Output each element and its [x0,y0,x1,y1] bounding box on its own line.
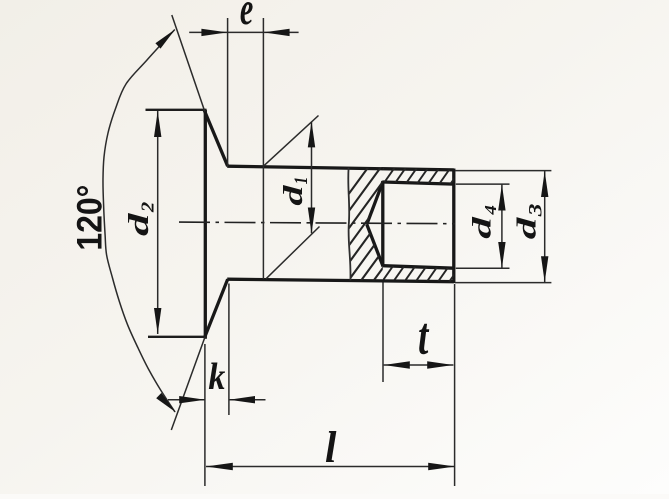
dimension k arrow left [179,396,205,403]
dimension e line [189,31,298,33]
dimension d2 extension line top [146,109,207,111]
section break line [348,168,350,281]
dimension d4 extension line top [456,183,510,185]
dimension l arrow right [428,463,455,470]
dimension d2 arrow bottom [154,308,161,334]
dimension d4 arrow bottom [498,242,505,268]
dimension k line right tail [229,399,266,401]
dimension d1 arrow bottom [308,208,315,234]
axis centerline [179,222,455,224]
dimension e arrow left [201,29,227,36]
shank end face [452,169,455,284]
dimension d2 arrow top [154,111,161,137]
dimension d3 line [544,171,546,282]
dimension d1 line [311,122,313,234]
bore bottom wall [381,181,384,267]
dimension d3 arrow bottom [541,256,548,282]
shank top edge [227,166,454,170]
svg-text:e: e [240,0,253,35]
dimension d4 arrow top [498,185,505,211]
label d1 [278,185,308,206]
rivet head cone top edge [204,110,227,166]
svg-text:k: k [208,356,225,398]
dimension t extension line left [382,283,384,383]
label d2 [124,212,155,236]
svg-text:120°: 120° [71,185,110,251]
dimension k line left tail [168,399,205,401]
dimension d1 oblique extension lower [266,227,320,279]
svg-text:d: d [124,212,155,236]
shank bottom edge [227,279,454,282]
svg-text:d: d [511,217,541,240]
section hatching strips [288,158,547,288]
dimension t line [384,364,454,366]
dimension d2 extension line bottom [148,336,207,338]
svg-text:4: 4 [481,205,500,216]
120deg arc arrow bottom [156,393,176,413]
dimension d3 extension line top [455,170,551,172]
dimension k extension line right [228,284,230,416]
rivet head flat face [204,110,207,339]
svg-text:d: d [278,185,308,206]
120deg arc arrow top [155,29,175,48]
svg-text:d: d [467,216,497,239]
svg-text:l: l [325,423,337,472]
dimension l line [206,466,455,468]
120deg arc [103,30,175,413]
bore cone upper edge [367,182,383,224]
dimension d1 arrow top [308,121,315,147]
rivet head cone bottom edge [204,279,227,338]
dimension l arrow left [206,463,233,470]
svg-text:2: 2 [139,202,159,214]
svg-text:t: t [418,306,429,365]
label d3 [511,217,541,240]
dimension e extension line right [262,18,264,279]
dimension d4 line [501,184,503,268]
label e [240,0,253,35]
bore cone lower edge [367,224,383,265]
cone edge extension lower [171,338,205,431]
bore bottom edge [383,266,454,269]
label k [208,356,225,398]
svg-text:1: 1 [289,177,311,185]
dimension d4 extension line bottom [456,267,510,269]
label l [325,423,337,472]
bore top edge [383,182,454,184]
dimension t arrow right [427,361,453,368]
dimension d1 oblique extension upper [264,116,319,166]
label t [418,306,429,365]
label d4 [467,216,497,239]
section hatching band [280,158,488,288]
dimension e arrow right [264,29,290,36]
dimension t arrow left [384,361,410,368]
head face extension line [204,344,206,486]
cone edge extension upper [172,15,205,112]
dimension d2 line [157,111,159,334]
dimension d3 extension line bottom [455,282,551,284]
right end extension line [454,284,456,486]
dimension e extension line left [227,18,229,166]
dimension d3 arrow top [541,171,548,197]
label 120deg [71,185,110,251]
svg-text:3: 3 [525,204,546,218]
dimension k arrow right [229,396,255,403]
